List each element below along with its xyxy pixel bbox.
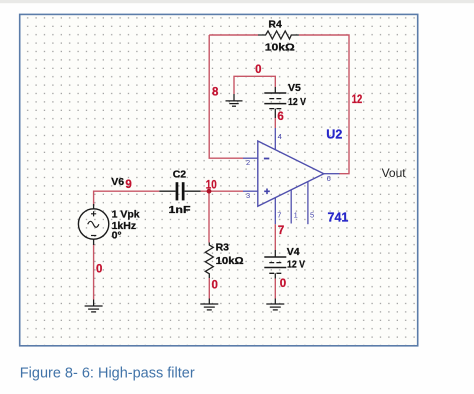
schematic sheet with dot grid [20,15,418,346]
svg-text:0: 0 [255,64,261,76]
wire net 0 under R3 [208,278,210,299]
svg-text:10kΩ: 10kΩ [216,255,244,267]
wire net 0 under V6 [93,244,95,300]
sheet border frame [20,14,418,345]
svg-text:7: 7 [277,211,281,220]
op-amp pin 4 lead [274,128,276,150]
ground under R3 [200,299,218,310]
svg-text:V6: V6 [111,176,124,188]
svg-text:R3: R3 [216,242,230,254]
wire net 8: R4 left down to op-amp pin 2 [209,35,243,158]
wire R4 left lead red [209,34,258,36]
ground near V5 [226,94,243,106]
svg-text:0: 0 [96,263,102,275]
op-amp minus input mark [264,158,269,160]
svg-text:1: 1 [294,211,298,220]
svg-text:741: 741 [328,210,349,224]
svg-text:3: 3 [246,191,250,200]
svg-text:0: 0 [280,278,286,290]
wire net 0 under V4 [274,279,276,299]
svg-text:12 V: 12 V [287,258,305,270]
op-amp plus input mark [264,189,270,195]
svg-text:7: 7 [278,225,284,237]
op-amp pin 7 lead [274,198,276,225]
svg-text:0°: 0° [112,230,122,242]
svg-text:8: 8 [212,86,219,98]
voltage source V6 [78,204,108,245]
ground under V6 [85,300,103,312]
svg-text:10kΩ: 10kΩ [265,42,295,54]
resistor R4 [258,31,299,39]
resistor R3 [205,243,213,279]
wire net 12: R4 right down to op-amp output, to Vout [299,35,349,174]
svg-text:1nF: 1nF [169,204,192,216]
wire net 10: C2 right to op-amp pin 3 and down to R3 [201,191,243,242]
battery V4 [264,250,286,279]
svg-text:R4: R4 [268,19,282,31]
op-amp pin 5 lead [307,182,309,225]
wire net 7: op-amp pin 7 to V4 top [274,224,276,250]
svg-text:6: 6 [327,174,331,183]
svg-text:5: 5 [310,211,314,220]
op-amp pin 1 lead [290,190,292,224]
svg-text:U2: U2 [326,127,342,141]
op-amp pin 3 lead [243,190,258,192]
battery V5 [264,87,286,118]
top window grey strip [0,0,474,3]
capacitor C2 [159,182,200,200]
svg-text:6: 6 [277,111,283,123]
svg-text:V4: V4 [287,246,300,258]
svg-text:C2: C2 [173,169,187,181]
wire net 6: V5 bottom to op-amp pin 4 [274,118,276,128]
svg-text:4: 4 [278,132,282,141]
svg-text:12 V: 12 V [288,96,306,108]
ground under V4 [266,299,284,310]
op-amp pin 6 output lead [324,173,340,175]
svg-text:2: 2 [246,158,250,167]
svg-text:Vout: Vout [382,166,407,180]
svg-text:9: 9 [125,179,131,191]
svg-text:V5: V5 [288,82,301,94]
svg-text:12: 12 [352,94,363,106]
svg-text:10: 10 [206,180,217,192]
wire net 0 top: ground to V5 plus [234,76,275,94]
svg-text:Figure 8- 6: High-pass filter: Figure 8- 6: High-pass filter [20,366,195,382]
svg-text:1 Vpk: 1 Vpk [112,208,140,220]
wire net 9: V6 top to C2 [94,191,160,206]
op-amp pin 2 lead [243,157,258,159]
node 10 junction dot [207,189,212,194]
op-amp U1 triangle [258,141,324,206]
svg-text:0: 0 [212,279,218,291]
